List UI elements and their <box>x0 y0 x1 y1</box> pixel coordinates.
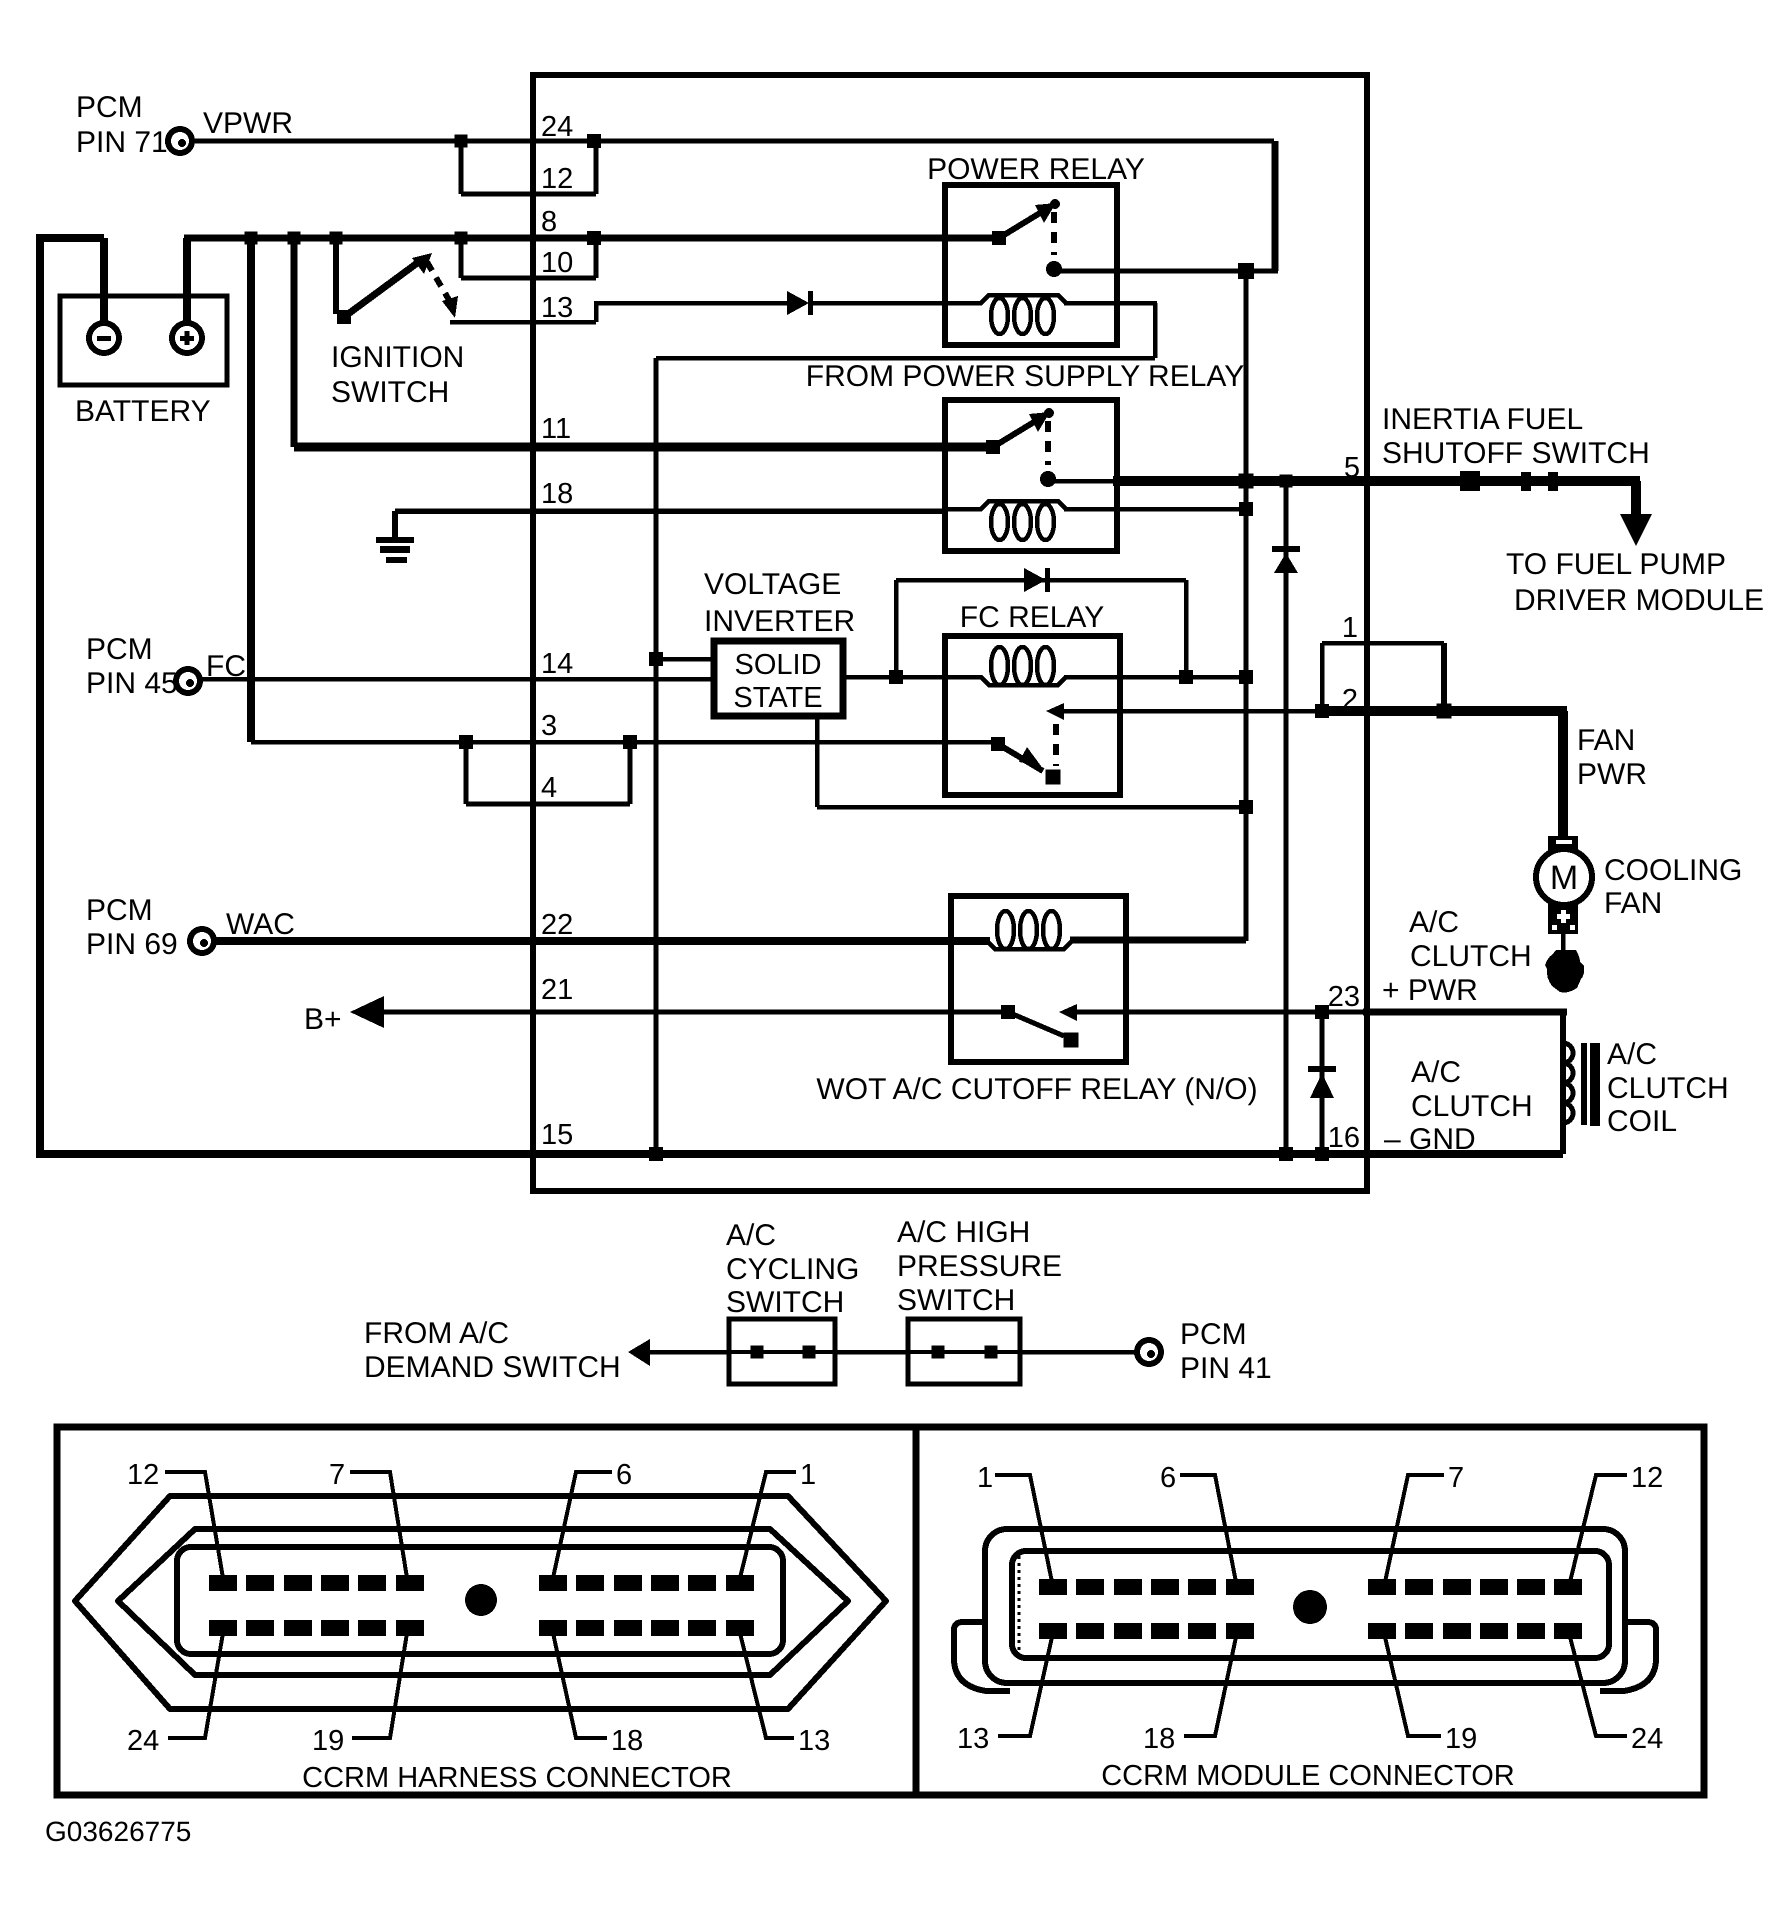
svg-text:PIN 69: PIN 69 <box>86 928 178 961</box>
module connector pins top row <box>1039 1579 1067 1595</box>
power supply relay coil L2 <box>945 501 1102 509</box>
svg-text:A/C: A/C <box>1411 1056 1461 1089</box>
svg-text:PWR: PWR <box>1577 758 1647 791</box>
wire FC coil to drop bus <box>1064 675 1246 680</box>
WOT relay switch blade <box>1008 1012 1064 1036</box>
svg-text:WOT A/C CUTOFF RELAY (N/O): WOT A/C CUTOFF RELAY (N/O) <box>816 1073 1257 1106</box>
svg-text:12: 12 <box>541 163 573 195</box>
svg-text:7: 7 <box>329 1459 345 1491</box>
ignition switch blade <box>344 261 420 317</box>
junction inertia wire / clutch diode branch <box>1280 475 1293 488</box>
junction pin1 jumper / pin 2 wire outside <box>1437 704 1452 719</box>
junction inertia wire / drop bus <box>1239 474 1254 489</box>
junction solid state feed <box>649 652 663 666</box>
svg-text:7: 7 <box>1448 1462 1464 1494</box>
wire power relay output <box>1054 269 1278 274</box>
junction on wire 24 at jumper drop <box>455 135 468 148</box>
cooling fan ground blob <box>1545 950 1584 993</box>
svg-text:POWER RELAY: POWER RELAY <box>927 153 1145 186</box>
svg-text:INVERTER: INVERTER <box>704 605 855 638</box>
ignition switch dashed throw <box>427 262 449 300</box>
diode loop right leg <box>1184 580 1189 677</box>
wire battery negative lead <box>100 238 108 324</box>
svg-text:PCM: PCM <box>76 91 143 124</box>
vertical bus power to WOT coil <box>1244 271 1249 941</box>
svg-text:FAN: FAN <box>1577 724 1635 757</box>
svg-text:12: 12 <box>1631 1462 1663 1494</box>
svg-text:SWITCH: SWITCH <box>897 1284 1015 1317</box>
harness connector outer shell <box>75 1496 886 1709</box>
junction on wire 24 at jumper return <box>587 134 601 148</box>
svg-text:B+: B+ <box>304 1003 342 1036</box>
module connector outer shell <box>985 1529 1625 1683</box>
A/C clutch coil core bars <box>1581 1043 1587 1125</box>
svg-text:A/C HIGH: A/C HIGH <box>897 1216 1030 1249</box>
connector PCM pin 69 <box>190 929 214 953</box>
arrow B+ input <box>350 996 384 1028</box>
module connector pins bottom row <box>1039 1623 1067 1639</box>
svg-text:SHUTOFF SWITCH: SHUTOFF SWITCH <box>1382 437 1650 470</box>
junction wire 8 / drop to wire 11 <box>288 232 301 245</box>
wire 11 to power supply relay <box>294 443 993 452</box>
ignition switch fixed contact <box>337 310 351 324</box>
diode D4 A/C clutch <box>1308 1066 1336 1072</box>
jumper pin 3 to pin 4 <box>464 742 469 804</box>
svg-text:DEMAND SWITCH: DEMAND SWITCH <box>364 1351 621 1384</box>
wire power relay coil return right <box>1153 303 1158 358</box>
WOT relay coil L4 <box>951 941 1108 949</box>
svg-text:19: 19 <box>312 1725 344 1757</box>
svg-text:SWITCH: SWITCH <box>726 1286 844 1319</box>
junction diode loop / coil wire <box>1179 670 1193 684</box>
wire coil return drop to solid state and pin 15 <box>654 358 659 1154</box>
jumper pin 1 right leg <box>1441 643 1447 711</box>
wire A/C clutch diode leg <box>1320 1012 1325 1154</box>
svg-text:STATE: STATE <box>733 682 822 714</box>
junction inverter output / diode loop <box>889 670 903 684</box>
wire 11 drop from wire 8 <box>291 238 298 447</box>
battery B1 box <box>60 296 227 385</box>
ground G1 symbol <box>392 511 398 538</box>
jumper pin 24 to pin 12 left leg <box>459 141 464 194</box>
svg-text:COOLING: COOLING <box>1604 854 1742 887</box>
power relay switch fixed contact <box>992 231 1006 245</box>
svg-text:G03626775: G03626775 <box>45 1816 191 1847</box>
connector section divider <box>913 1427 920 1795</box>
junction wire 8 / jumper 10 drop <box>455 232 468 245</box>
svg-text:11: 11 <box>541 413 571 445</box>
CCRM module outline box <box>533 75 1367 1191</box>
module connector keying strip <box>1018 1556 1021 1654</box>
svg-text:PIN 41: PIN 41 <box>1180 1352 1272 1385</box>
svg-text:CYCLING: CYCLING <box>726 1253 859 1286</box>
harness connector pins top row <box>209 1575 237 1591</box>
svg-text:A/C: A/C <box>1607 1038 1657 1071</box>
power supply relay switch blade <box>993 422 1034 447</box>
wire demand to cycling switch <box>648 1350 729 1355</box>
svg-text:4: 4 <box>541 772 557 804</box>
svg-text:VOLTAGE: VOLTAGE <box>704 568 841 601</box>
wire 13 upper segment to diode <box>596 301 787 306</box>
svg-text:PIN 71: PIN 71 <box>76 126 168 159</box>
A/C cycling switch S3 box <box>729 1319 835 1384</box>
junction pin1 jumper / pin 2 wire inside <box>1315 704 1329 718</box>
svg-text:VPWR: VPWR <box>203 107 293 140</box>
diode D1 on wire 13 <box>787 291 809 315</box>
svg-text:5: 5 <box>1344 452 1360 484</box>
wire cycling to high pressure switch <box>835 1350 908 1355</box>
diode loop left leg <box>894 580 899 677</box>
voltage inverter U1 box <box>714 641 843 716</box>
junction wire 3 / jumper 4 right <box>623 735 637 749</box>
wire clutch diode branch from inertia line <box>1284 481 1289 1154</box>
power supply relay K2 box <box>945 400 1117 551</box>
wire 3 from left bus <box>247 238 255 742</box>
arrow to fuel pump driver module <box>1620 514 1652 546</box>
wire 24 drop to power relay output <box>1272 141 1279 271</box>
harness connector inner shell <box>118 1529 848 1675</box>
svg-text:TO FUEL PUMP: TO FUEL PUMP <box>1506 548 1726 581</box>
junction power relay output / drop bus <box>1238 263 1254 279</box>
cooling fan bottom terminal <box>1548 903 1578 934</box>
module connector index dot <box>1293 1590 1327 1624</box>
FC relay K3 box <box>945 636 1120 795</box>
svg-text:1: 1 <box>800 1459 816 1491</box>
svg-text:12: 12 <box>127 1459 159 1491</box>
wire 18 from ground <box>395 508 947 514</box>
connector PCM pin 45 <box>176 669 200 693</box>
svg-text:CLUTCH: CLUTCH <box>1411 1090 1533 1123</box>
battery negative terminal <box>89 323 119 353</box>
module connector pin field outline <box>1012 1551 1609 1658</box>
jumper pin 12 to pin 24 right leg <box>594 141 599 194</box>
WOT relay switch right contact arrow <box>1059 1004 1077 1021</box>
power relay K1 box <box>945 185 1117 345</box>
WOT relay switch fixed contact left <box>1001 1005 1015 1019</box>
wire power relay coil return across <box>656 356 1155 361</box>
wire pin 1 <box>1322 641 1444 646</box>
diode loop top wire <box>896 578 1186 583</box>
wire left ground bus vertical <box>36 234 44 1154</box>
power relay switch dashed throw <box>1051 212 1057 255</box>
wire feed into voltage inverter <box>656 657 717 662</box>
wire 22 WAC <box>214 937 990 945</box>
wire 21 from B+ <box>382 1010 1008 1015</box>
svg-text:CLUTCH: CLUTCH <box>1607 1072 1729 1105</box>
junction clutch diode branch / ground line <box>1279 1147 1293 1161</box>
wire pin 2 fan power <box>1322 706 1567 716</box>
wire inverter output <box>843 675 948 680</box>
svg-text:24: 24 <box>541 111 573 143</box>
power relay switch blade <box>999 213 1040 238</box>
wire power supply relay output <box>1048 479 1117 484</box>
svg-text:19: 19 <box>1445 1723 1477 1755</box>
svg-text:3: 3 <box>541 710 557 742</box>
svg-text:CCRM MODULE CONNECTOR: CCRM MODULE CONNECTOR <box>1101 1760 1515 1792</box>
svg-text:WAC: WAC <box>226 908 295 941</box>
wire battery negative to left bus <box>36 234 104 242</box>
wire WOT coil to drop bus <box>1070 937 1246 944</box>
cooling fan ground stem <box>1561 934 1566 952</box>
wire 23 thick segment <box>1363 1009 1567 1016</box>
harness connector index dot <box>465 1584 497 1616</box>
battery positive terminal <box>172 323 202 353</box>
svg-text:+ PWR: + PWR <box>1382 974 1478 1007</box>
junction wire 8 / drop to wire 3 <box>245 232 258 245</box>
power supply relay switch fixed contact <box>986 440 1000 454</box>
arrow from A/C demand switch <box>628 1339 650 1366</box>
power relay coil L1 <box>945 295 1102 303</box>
wire 23 to A/C clutch <box>1077 1010 1563 1015</box>
connector PCM pin 71 <box>168 129 192 153</box>
svg-text:6: 6 <box>616 1459 632 1491</box>
svg-text:INERTIA FUEL: INERTIA FUEL <box>1382 403 1583 436</box>
A/C clutch coil bumps <box>1563 1043 1573 1123</box>
svg-text:A/C: A/C <box>1409 906 1459 939</box>
svg-text:PIN 45: PIN 45 <box>86 667 178 700</box>
svg-text:SOLID: SOLID <box>734 649 821 681</box>
jumper pin 10 right leg <box>594 238 599 278</box>
svg-text:BATTERY: BATTERY <box>75 395 211 428</box>
svg-text:PRESSURE: PRESSURE <box>897 1250 1062 1283</box>
svg-text:13: 13 <box>541 292 573 324</box>
A/C cycling switch contacts <box>729 1350 835 1354</box>
svg-text:13: 13 <box>957 1723 989 1755</box>
junction inverter loop / drop bus <box>1239 800 1253 814</box>
svg-text:CLUTCH: CLUTCH <box>1410 940 1532 973</box>
wire to PCM pin 41 <box>1020 1350 1137 1355</box>
wire voltage inverter loop to bus <box>817 805 1246 810</box>
wire voltage inverter bottom drop <box>815 716 820 807</box>
svg-text:FC RELAY: FC RELAY <box>960 601 1104 634</box>
A/C clutch right edge <box>1560 1012 1566 1154</box>
svg-text:M: M <box>1550 859 1578 897</box>
wire 13 step <box>594 301 599 322</box>
FC relay coil L3 <box>945 677 1102 685</box>
ignition switch S1 leg from wire 8 <box>333 238 339 314</box>
wire 14 FC command <box>200 677 717 682</box>
cooling fan top terminal <box>1548 836 1578 851</box>
svg-text:14: 14 <box>541 648 573 680</box>
jumper pin 8 to pin 10 left leg <box>459 238 464 278</box>
junction clutch diode / ground line <box>1315 1147 1329 1161</box>
svg-text:CCRM HARNESS CONNECTOR: CCRM HARNESS CONNECTOR <box>302 1762 732 1794</box>
svg-text:FROM A/C: FROM A/C <box>364 1317 509 1350</box>
svg-text:1: 1 <box>1342 612 1358 644</box>
svg-text:21: 21 <box>541 974 573 1006</box>
svg-text:IGNITION: IGNITION <box>331 341 464 374</box>
wire fan drop <box>1558 711 1568 838</box>
svg-text:PCM: PCM <box>86 633 153 666</box>
svg-text:1: 1 <box>977 1462 993 1494</box>
svg-text:SWITCH: SWITCH <box>331 376 449 409</box>
A/C high pressure switch S4 box <box>908 1319 1020 1384</box>
wire FC relay output pin 2 <box>1060 709 1322 714</box>
cooling fan motor M1 <box>1536 849 1592 905</box>
svg-text:24: 24 <box>1631 1723 1663 1755</box>
wire 8 battery feed <box>184 235 999 242</box>
connector PCM pin 41 <box>1137 1340 1161 1364</box>
svg-text:10: 10 <box>541 247 573 279</box>
junction coil return / drop bus <box>1239 502 1253 516</box>
wire power relay coil return lead <box>1064 301 1157 306</box>
svg-text:18: 18 <box>611 1725 643 1757</box>
svg-text:6: 6 <box>1160 1462 1176 1494</box>
svg-text:24: 24 <box>127 1725 159 1757</box>
svg-text:15: 15 <box>541 1119 573 1151</box>
svg-text:PCM: PCM <box>1180 1318 1247 1351</box>
WOT relay K4 box <box>951 896 1126 1062</box>
svg-text:COIL: COIL <box>1607 1105 1677 1138</box>
jumper pin 1 leg inside <box>1320 643 1325 711</box>
connector section frame <box>57 1427 1704 1795</box>
svg-text:A/C: A/C <box>726 1219 776 1252</box>
svg-text:13: 13 <box>798 1725 830 1757</box>
wire drop to fuel pump module <box>1631 481 1641 518</box>
svg-text:18: 18 <box>541 478 573 510</box>
module connector right ear <box>1600 1622 1656 1691</box>
junction FC coil / drop bus <box>1239 670 1253 684</box>
module connector left ear <box>954 1622 1010 1691</box>
wire pin 10 <box>461 276 596 281</box>
power supply relay switch dashed throw <box>1045 421 1051 465</box>
svg-text:23: 23 <box>1328 981 1360 1013</box>
junction wire 8 / ignition switch leg <box>330 232 343 245</box>
svg-text:22: 22 <box>541 909 573 941</box>
wire pin 12 <box>461 192 596 197</box>
junction wire 3 / jumper 4 left <box>459 735 473 749</box>
diode D3 on branch <box>1272 546 1300 552</box>
svg-text:FAN: FAN <box>1604 887 1662 920</box>
wire coil 18 return to drop bus <box>1064 507 1246 512</box>
svg-text:PCM: PCM <box>86 894 153 927</box>
wire VPWR to pin 24 <box>192 139 1274 144</box>
diode D2 on loop <box>1024 568 1046 592</box>
inertia fuel shutoff switch S2 contacts <box>1460 471 1480 491</box>
harness connector pin field outline <box>177 1547 783 1654</box>
wire 13 lower segment from ignition switch <box>450 320 596 325</box>
junction wire 8 / jumper 10 return <box>587 231 601 245</box>
A/C high pressure switch contacts <box>908 1350 1020 1354</box>
svg-text:16: 16 <box>1328 1122 1360 1154</box>
junction drop bus on wire 15 <box>649 1147 663 1161</box>
svg-text:DRIVER MODULE: DRIVER MODULE <box>1514 584 1764 617</box>
FC relay switch blade <box>998 744 1043 771</box>
svg-text:– GND: – GND <box>1384 1123 1476 1156</box>
harness connector pins bottom row <box>209 1620 237 1636</box>
svg-text:8: 8 <box>541 206 557 238</box>
svg-text:FROM POWER SUPPLY RELAY: FROM POWER SUPPLY RELAY <box>806 360 1244 393</box>
FC relay switch dashed throw <box>1053 724 1059 766</box>
FC relay switch fixed contact <box>991 737 1005 751</box>
svg-text:18: 18 <box>1143 1723 1175 1755</box>
junction clutch diode / wire 23 <box>1315 1005 1329 1019</box>
wire 15 16 ground line <box>36 1150 1563 1158</box>
wire battery positive lead <box>183 238 191 324</box>
wire pin 5 inertia feed <box>1113 476 1640 486</box>
